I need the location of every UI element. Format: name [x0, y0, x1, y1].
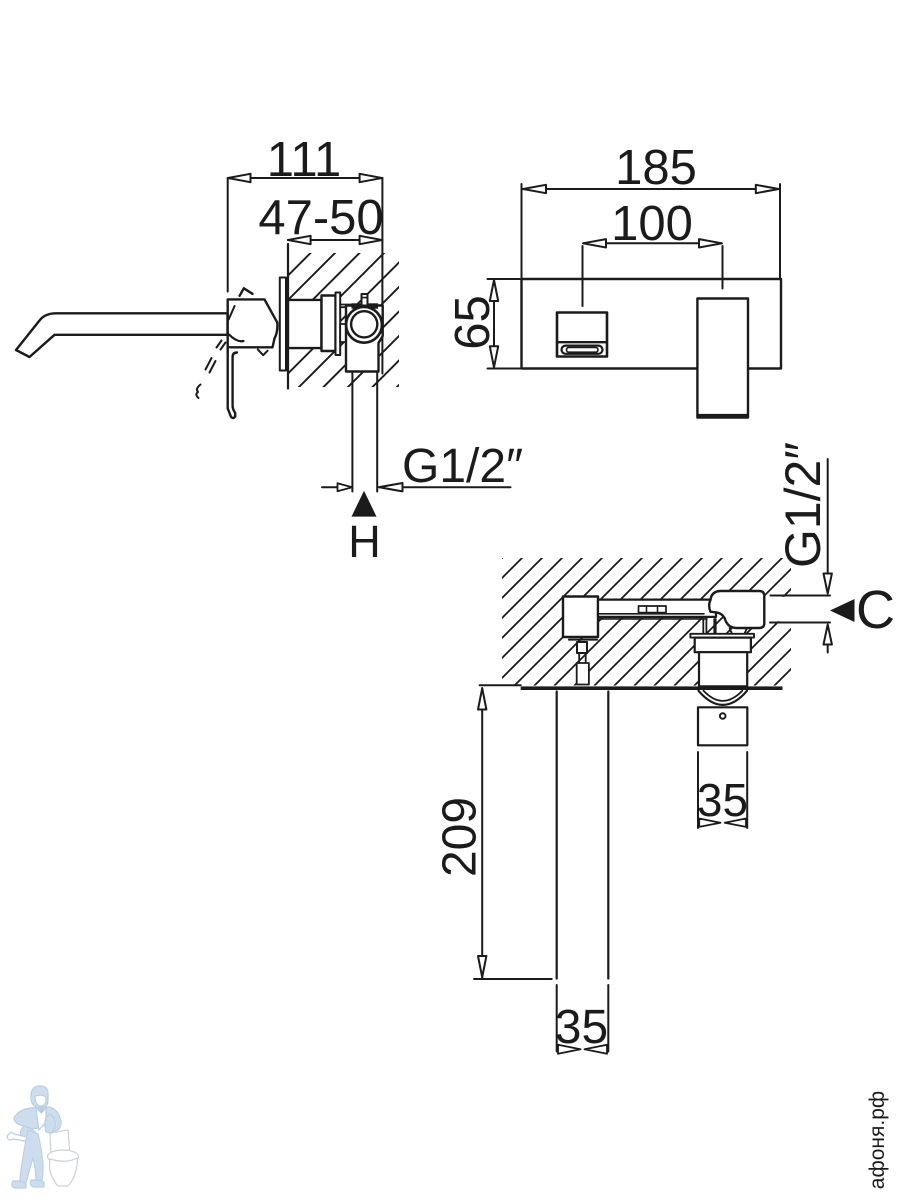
- plumber jacket: [14, 1107, 61, 1133]
- svg-text:афоня.рф: афоня.рф: [866, 1091, 889, 1189]
- legs: [20, 1130, 43, 1183]
- spout slot inner: [567, 347, 599, 352]
- valve top dark band: [352, 303, 379, 308]
- C dim arrow tail: [827, 645, 829, 653]
- motion curl: [196, 385, 200, 399]
- toilet tank: [50, 1130, 70, 1158]
- motion dash pair lower: [206, 358, 216, 373]
- legs under bar: [703, 619, 715, 634]
- svg-text:C: C: [856, 580, 895, 640]
- dim 100 line: [584, 242, 722, 244]
- valve inner circle: [351, 311, 377, 337]
- dim G1/2 line left segment: [322, 486, 352, 488]
- plumber head: [31, 1086, 48, 1108]
- plumber logo watermark: [7, 1086, 78, 1188]
- dome below counter: [699, 691, 748, 705]
- wall bottom edge left: [480, 684, 521, 686]
- lower valve box: [698, 707, 747, 745]
- motion dash pair upper: [217, 341, 226, 350]
- handle bottom thick edge: [699, 414, 748, 418]
- dim 111 extension left: [227, 178, 229, 292]
- dim 35 left arrows: [558, 1045, 607, 1054]
- svg-text:185: 185: [615, 141, 697, 195]
- spout bar (plan): [598, 600, 716, 617]
- dim 65 tick top: [488, 278, 521, 280]
- wall hatch (plan view): [502, 558, 791, 686]
- dim 111 arrow right: [360, 174, 383, 182]
- dim 185 line: [523, 188, 779, 190]
- C dim upper extension: [771, 595, 831, 597]
- H marker triangle: [352, 491, 377, 517]
- dim 100 extension left: [582, 246, 584, 306]
- base neck: [579, 653, 586, 663]
- dim 209 arrow bottom: [478, 956, 486, 977]
- flange ring 2: [336, 293, 341, 356]
- svg-text:H: H: [348, 516, 381, 567]
- dim 209 arrow top: [478, 688, 486, 709]
- toilet bowl rim: [48, 1150, 79, 1163]
- escutcheon plate (side): [280, 278, 286, 371]
- dim 35 right extension lines: [698, 752, 747, 828]
- connector block: [340, 324, 346, 342]
- plumber face: [35, 1095, 46, 1106]
- base pipe to counter: [577, 663, 589, 685]
- connector lines top: [340, 305, 352, 308]
- dim 185 extension right: [779, 184, 781, 278]
- spout slot outer: [562, 346, 603, 354]
- valve cap (plan): [695, 638, 751, 653]
- motion curve at lever: [229, 335, 244, 342]
- svg-text:209: 209: [434, 797, 487, 877]
- dim 100 extension right: [722, 246, 724, 289]
- dim 47-50 arrow right: [360, 236, 383, 244]
- dim G1/2 arrow left-pointing: [379, 483, 403, 491]
- handle stick (front): [697, 299, 748, 418]
- C dim lower extension: [770, 622, 830, 624]
- dim 209 bottom tick: [474, 978, 552, 980]
- dim 185 arrow left: [523, 185, 546, 193]
- dim G1/2 arrow right-pointing: [338, 483, 353, 491]
- svg-text:47-50: 47-50: [258, 191, 383, 245]
- dim 65 arrow bottom: [490, 346, 498, 367]
- C dim arrow down: [824, 574, 832, 594]
- dim 47-50 arrow left: [288, 236, 311, 244]
- top fitting cap line: [362, 297, 368, 299]
- toilet bowl base: [50, 1158, 78, 1186]
- right arm resting: [45, 1114, 55, 1133]
- spout base block (plan): [563, 597, 598, 638]
- escutcheon bar (plan): [690, 634, 754, 638]
- spout outlet box: [557, 313, 607, 357]
- dim 209 line: [481, 688, 483, 978]
- dim 185 extension left: [521, 184, 523, 278]
- dim 185 arrow right: [756, 185, 779, 193]
- handle body (side): [228, 299, 278, 347]
- handle pivot line: [229, 306, 235, 319]
- dim 65 tick bottom: [488, 368, 521, 370]
- bar detail cells: [639, 606, 667, 613]
- base bracket line: [569, 639, 597, 641]
- left arm with wrench: [20, 1126, 38, 1141]
- dome inner arc: [704, 691, 743, 701]
- dim 65 arrow top: [490, 280, 498, 301]
- dim 65 line: [493, 280, 495, 368]
- dim 35 left extension lines: [557, 985, 609, 1052]
- motion arc top: [240, 288, 253, 296]
- wall hatch (side view): [288, 253, 399, 387]
- spout bar lower line: [598, 614, 707, 619]
- dim 111 arrow left: [228, 174, 251, 182]
- svg-text:100: 100: [611, 197, 693, 251]
- wall face line: [287, 244, 289, 389]
- svg-text:G1/2″: G1/2″: [775, 442, 831, 568]
- spout tube (side): [16, 313, 228, 357]
- top fitting: [362, 294, 368, 306]
- svg-text:111: 111: [267, 133, 341, 187]
- wall back extension line: [381, 178, 383, 374]
- wrench: [7, 1133, 32, 1143]
- hatch notch right of handle: [766, 597, 793, 622]
- svg-text:35: 35: [697, 774, 748, 826]
- supply pipe below (side): [352, 372, 377, 492]
- shirt front: [36, 1108, 46, 1130]
- bow tie: [38, 1109, 45, 1113]
- flange ring 1: [322, 296, 336, 352]
- counter line: [521, 686, 783, 690]
- C dim arrow up: [824, 625, 832, 645]
- spout pipe (plan): [557, 692, 609, 979]
- spout outlet divider: [557, 341, 607, 343]
- dim 100 arrow left: [583, 239, 606, 247]
- dim G1/2 line right segment: [379, 486, 511, 488]
- handle lever (side): [228, 347, 237, 418]
- handle (plan) with elbow: [709, 591, 764, 628]
- valve block: [346, 306, 383, 372]
- svg-text:G1/2″: G1/2″: [402, 440, 523, 493]
- screw dot: [720, 713, 726, 719]
- trim plate: [522, 279, 782, 369]
- valve outer circle: [346, 307, 382, 343]
- dim 47-50 line: [288, 239, 383, 241]
- dim 111 line: [228, 177, 383, 179]
- shoes: [12, 1181, 26, 1188]
- in-wall valve body: [288, 300, 322, 348]
- aerator wedge under body: [258, 350, 268, 356]
- svg-text:35: 35: [555, 1001, 608, 1054]
- dim 35 right arrows: [699, 819, 746, 827]
- G1/2 leader line vertical: [827, 459, 829, 573]
- base nut: [577, 642, 587, 653]
- valve cylinder (plan): [699, 652, 747, 686]
- dim 100 arrow right: [699, 239, 722, 247]
- svg-text:65: 65: [446, 295, 500, 350]
- leg under handle: [730, 628, 748, 634]
- C pointer triangle: [830, 599, 855, 622]
